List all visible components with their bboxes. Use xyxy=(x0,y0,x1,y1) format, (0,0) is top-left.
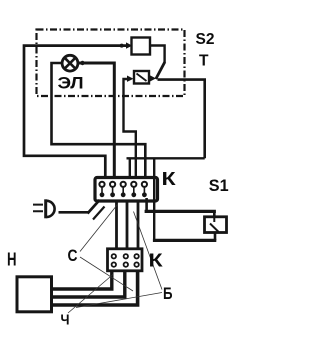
svg-text:К: К xyxy=(149,250,163,270)
switch lever xyxy=(156,62,165,79)
switch S1 lever xyxy=(210,217,219,232)
leader line Ch xyxy=(68,274,114,313)
leader line C2 xyxy=(80,257,133,291)
wire top supply xyxy=(24,46,126,178)
svg-text:К: К xyxy=(162,169,176,189)
switch S1 box xyxy=(205,217,227,233)
arrow into relay S2 xyxy=(126,42,132,48)
wire T output xyxy=(158,80,205,159)
svg-text:ЭЛ: ЭЛ xyxy=(58,73,84,92)
wire S2 output xyxy=(150,46,165,63)
wire T feed xyxy=(124,79,136,178)
plug X xyxy=(33,205,43,212)
arrow out of switch T xyxy=(150,75,156,81)
connector K box xyxy=(95,178,158,202)
leader line C1 xyxy=(80,205,118,252)
harness wire 2 xyxy=(52,271,125,297)
leader line B1 xyxy=(134,212,163,290)
lamp ЭЛ xyxy=(62,55,78,71)
svg-text:Б: Б xyxy=(163,285,173,303)
connector K2 box xyxy=(108,249,143,271)
heater box H xyxy=(17,277,52,312)
wire diagonal tick xyxy=(93,207,105,220)
wire plug lead xyxy=(59,211,89,214)
svg-text:S2: S2 xyxy=(196,31,215,48)
wire S1 output xyxy=(214,233,217,241)
wire bus node xyxy=(127,157,205,159)
harness wire 1 xyxy=(52,271,112,289)
relay S2 box xyxy=(132,38,151,55)
connector K2 pins xyxy=(112,254,139,267)
svg-text:S1: S1 xyxy=(209,177,229,195)
wire stub to pin 3 xyxy=(129,158,131,177)
junction dot xyxy=(120,44,124,48)
harness wire 3 xyxy=(52,271,138,305)
connector K pins xyxy=(99,182,147,198)
svg-text:Ч: Ч xyxy=(61,312,70,329)
lamp terminal dot xyxy=(80,61,84,65)
wires K to K2 xyxy=(115,201,118,249)
wire lamp loop xyxy=(52,63,146,178)
wire S1 feed xyxy=(145,198,148,212)
wire plug diagonal xyxy=(88,200,100,214)
switch T inner diagonal xyxy=(137,74,147,82)
svg-text:С: С xyxy=(68,246,78,265)
dash-dot enclosure (unit boundary) xyxy=(37,30,185,97)
arrow into switch T xyxy=(127,76,134,82)
leader line B2 xyxy=(76,293,162,308)
svg-text:T: T xyxy=(199,52,209,69)
wire S1 return riser xyxy=(153,158,155,240)
thermal switch T box xyxy=(134,71,149,84)
wire lamp to pin 2 xyxy=(78,63,114,178)
svg-text:Н: Н xyxy=(7,249,17,269)
